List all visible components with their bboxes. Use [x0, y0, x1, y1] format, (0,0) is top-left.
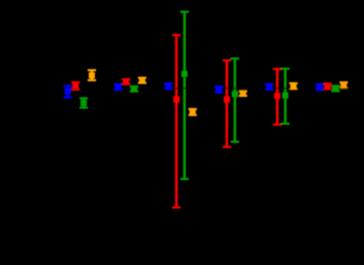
marker blue G5	[266, 83, 272, 89]
marker orange G3	[190, 109, 196, 115]
marker red G5	[274, 93, 280, 99]
error bar orange G1	[88, 70, 96, 80]
error bar green G2	[130, 87, 138, 92]
error bar red G3	[172, 35, 180, 208]
error bar green G4	[231, 59, 239, 142]
marker orange G6	[341, 82, 347, 88]
error bar blue G2	[114, 84, 122, 89]
black reference line y=1	[0, 87, 364, 89]
error bar orange G3	[188, 109, 196, 115]
marker blue G3	[165, 83, 171, 89]
marker green G6	[333, 85, 339, 91]
error bar green G3	[180, 12, 188, 179]
error bar blue G1	[64, 86, 72, 97]
error bar blue G6	[315, 84, 323, 89]
marker green G2	[131, 86, 137, 92]
error bar blue G4	[215, 87, 223, 93]
error bar red G1	[71, 82, 79, 89]
marker orange G5	[290, 83, 296, 89]
error bar green G5	[281, 69, 289, 124]
marker red G2	[123, 79, 129, 85]
error bar red G4	[223, 60, 231, 147]
marker blue G1	[65, 88, 71, 94]
error bar red G2	[122, 79, 130, 84]
error bar blue G3	[164, 84, 172, 89]
marker green G1	[81, 100, 87, 106]
marker green G5	[282, 92, 288, 98]
error bar red G5	[273, 69, 281, 125]
marker orange G2	[139, 77, 145, 83]
marker green G4	[232, 91, 238, 97]
marker red G4	[224, 96, 230, 102]
error bar red G6	[323, 84, 331, 89]
marker blue G2	[115, 84, 121, 90]
error bar orange G2	[138, 78, 146, 83]
marker blue G4	[216, 86, 222, 92]
marker red G1	[73, 82, 79, 88]
error bar green G6	[331, 86, 339, 91]
error bar green G1	[80, 98, 88, 107]
marker orange G1	[89, 72, 95, 78]
error bar blue G5	[265, 84, 273, 89]
marker green G3	[181, 71, 187, 77]
marker orange G4	[240, 90, 246, 96]
error bar orange G4	[239, 91, 247, 96]
marker red G3	[173, 96, 179, 102]
marker blue G6	[317, 83, 323, 89]
marker red G6	[324, 83, 330, 89]
error bar orange G5	[289, 83, 297, 89]
error bar orange G6	[340, 82, 348, 88]
